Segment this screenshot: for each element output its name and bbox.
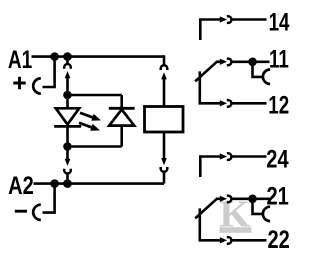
switch arm contact I <box>195 62 217 82</box>
plug connector A1 to coil <box>161 55 168 106</box>
watermark K <box>219 193 251 235</box>
wire 22 to terminal <box>232 239 266 242</box>
wire diode branch vertical <box>120 95 123 147</box>
wire 24 to terminal <box>232 155 266 158</box>
switch arm contact II <box>195 199 217 219</box>
node 11 junction <box>248 58 257 67</box>
plug connector LED branch to A2 <box>64 148 71 182</box>
svg-text:24: 24 <box>266 144 289 173</box>
wire 12 to terminal <box>232 102 266 105</box>
plug connector A1 to LED branch <box>64 58 71 92</box>
LED indicator <box>54 108 81 126</box>
svg-text:22: 22 <box>268 225 290 254</box>
plug connector 22 <box>220 237 232 244</box>
wire contact 14 with NO stub <box>200 20 221 41</box>
plug connector 24 <box>220 153 232 160</box>
wire top node rail <box>68 94 122 97</box>
svg-text:A1: A1 <box>8 45 32 73</box>
clamp terminal 21 <box>263 207 270 221</box>
wire 11 to terminal <box>232 60 269 63</box>
wire bottom node rail <box>68 145 122 148</box>
wire A2 rail <box>34 182 165 185</box>
node A2-right junction <box>63 179 72 188</box>
wire + clamp to A1 <box>43 58 55 87</box>
clamp terminal + <box>33 78 41 93</box>
plug connector 12 <box>220 100 232 107</box>
wire contact 12 vertical <box>200 71 221 103</box>
node A1-left junction <box>50 52 59 61</box>
wire contact 22 vertical <box>200 208 221 240</box>
plug connector 14 <box>220 16 232 23</box>
LED emission arrows <box>79 113 101 131</box>
freewheeling diode <box>109 108 135 125</box>
wire contact 11 <box>216 60 221 63</box>
clamp terminal 11 <box>263 70 270 84</box>
svg-text:14: 14 <box>269 8 290 36</box>
plug connector coil to A2 <box>161 158 168 184</box>
node A1-right junction <box>63 52 72 61</box>
wire coil bottom <box>163 132 166 159</box>
wire − clamp to A2 <box>43 185 55 213</box>
svg-text:11: 11 <box>269 45 289 73</box>
clamp terminal − <box>33 205 41 220</box>
wire A1 rail <box>32 55 165 58</box>
wire LED branch vertical <box>66 95 69 147</box>
plug connector 21 <box>220 196 232 203</box>
wire 21 to clamp <box>253 200 263 214</box>
wire 11 to clamp <box>253 63 263 77</box>
svg-text:21: 21 <box>267 181 290 210</box>
wire contact 21 <box>216 198 221 201</box>
node A2-left junction <box>50 179 59 188</box>
node LED branch bottom <box>63 142 72 151</box>
wire 21 to terminal <box>232 198 269 201</box>
relay coil <box>145 107 184 133</box>
plug connector 11 <box>220 59 232 66</box>
label − <box>15 210 27 213</box>
label + <box>13 77 25 89</box>
node 21 junction <box>248 195 257 204</box>
wire contact 24 with NO stub <box>200 157 221 178</box>
wire 14 to terminal <box>232 18 266 21</box>
svg-text:12: 12 <box>268 91 289 119</box>
svg-text:A2: A2 <box>8 170 34 199</box>
node LED branch top <box>63 91 72 100</box>
